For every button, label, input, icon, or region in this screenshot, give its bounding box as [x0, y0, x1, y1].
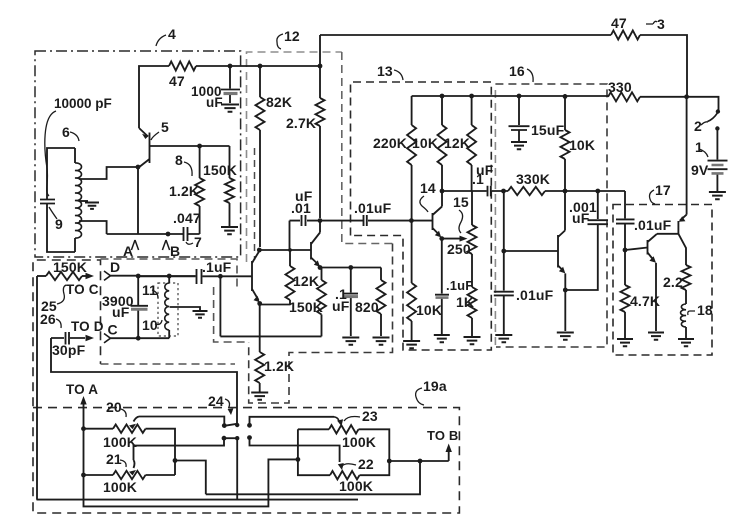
wire pot23 wiper feed [334, 417, 343, 426]
label TO C [66, 282, 99, 297]
svg-text:10K: 10K [412, 135, 438, 151]
svg-text:150K: 150K [53, 259, 87, 275]
ground below 10K lower [403, 341, 420, 348]
junction dot .1uF node [218, 274, 223, 279]
resistor 330K [508, 187, 545, 195]
dashed enclosure box 16 left edge [494, 86, 496, 345]
svg-text:22: 22 [358, 456, 374, 472]
svg-text:100K: 100K [339, 478, 373, 494]
junction dot base/1.2K [197, 144, 202, 149]
label 6 with leader [62, 124, 79, 141]
label TO D [71, 319, 104, 334]
wire feedback jog line [175, 461, 420, 495]
svg-text:C: C [108, 322, 118, 338]
dashed enclosure box 17 [613, 205, 712, 356]
label 220K [373, 135, 407, 151]
svg-text:10000 pF: 10000 pF [54, 96, 112, 111]
capacitor .047 (item 7) [184, 227, 188, 241]
label .1uF (box12 input) [202, 259, 232, 275]
capacitor 1000uF [221, 66, 240, 103]
svg-text:47: 47 [169, 73, 185, 89]
label 2 with leader [694, 118, 708, 134]
junction dot pots right node [387, 459, 392, 464]
svg-text:uF: uF [112, 304, 130, 320]
wire cap to base of Q7 [289, 221, 291, 250]
label 100K pot23 [342, 434, 376, 450]
potentiometer 21 wiper [129, 438, 224, 475]
dashed enclosure box 4 (oscillator) [35, 51, 241, 257]
dashed enclosure box 13 [351, 82, 492, 350]
label 10 with leader [142, 317, 162, 333]
label 14 with leader [420, 180, 436, 212]
dashed enclosure box for tuned network (D/C box) [101, 259, 249, 364]
capacitor .001 uF [565, 191, 608, 290]
label 11 with leader [142, 282, 158, 298]
resistor 2.7K [316, 35, 325, 218]
resistor 12K (box13) [467, 96, 476, 191]
label 15uF [531, 122, 565, 138]
label 30pF [52, 342, 86, 358]
ground below 1.2K [251, 393, 268, 400]
resistor 82K [256, 66, 265, 247]
wire 12K bottom to left rail drop [260, 305, 290, 337]
svg-text:330K: 330K [516, 171, 550, 187]
potentiometer 20 rail [84, 425, 176, 476]
transistor Q5 [138, 128, 150, 234]
svg-text:11: 11 [142, 282, 157, 298]
svg-text:14: 14 [420, 180, 436, 196]
wire box4 bottom rail [107, 233, 200, 235]
dashed enclosure box 12 (amplifier) outer gray outline [247, 52, 342, 262]
ground below .1uF bypass [342, 338, 359, 345]
wire coil bottom tap [79, 221, 107, 234]
capacitor 15uF [509, 96, 530, 141]
svg-text:B: B [170, 243, 180, 259]
rheostat 250 wiper arrow [460, 236, 468, 242]
label 17 with leader [650, 182, 671, 204]
label .1 uF bypass [332, 286, 350, 314]
label .047 [173, 210, 201, 226]
wire coil center tap to ground [79, 200, 88, 202]
dashed enclosure box 12 right edge [342, 52, 393, 244]
label 250 [447, 241, 471, 257]
label 20 with leader [106, 399, 126, 417]
junction dot emitter .001 node [563, 288, 568, 293]
svg-text:2.2: 2.2 [663, 274, 683, 290]
wire Q14 emitter to rheostat wiper [441, 238, 461, 240]
label 2.7K [286, 115, 316, 131]
arrow TO A [80, 396, 86, 429]
svg-text:330: 330 [608, 79, 632, 95]
junction dots box16 rail [517, 94, 568, 99]
label 820 [355, 299, 379, 315]
wire input node to Q14 base [411, 220, 432, 222]
label 15 with leader [453, 194, 469, 233]
wire 30pF left drop to switch feed [51, 338, 237, 424]
svg-text:1K: 1K [456, 294, 474, 310]
label 12K (box13) [444, 135, 470, 151]
label 10K (box13 lower) [416, 302, 442, 318]
svg-text:24: 24 [208, 393, 224, 409]
ground at coil center tap [85, 203, 99, 209]
label 4.7K [630, 293, 660, 309]
wire Q6 base line .1uF [203, 275, 253, 277]
node B arrow [162, 240, 180, 259]
rheostat 250 [468, 191, 477, 287]
svg-text:.01uF: .01uF [354, 200, 392, 216]
label uF .01 stacked [291, 188, 313, 216]
svg-text:12: 12 [284, 28, 300, 44]
junction dot collector node [440, 189, 445, 194]
junction dot 330K left node [501, 189, 506, 194]
ground below .01uF box16 [495, 335, 512, 342]
resistor 330 [608, 92, 687, 101]
svg-text:150K: 150K [203, 162, 237, 178]
junction dot Q6 collector node [257, 248, 262, 253]
resistor 4.7K [621, 250, 630, 338]
svg-text:uF: uF [332, 298, 350, 314]
wire pot22 wiper feed [338, 463, 344, 470]
capacitor .01uF (box17) [616, 219, 635, 250]
resistor 820 [377, 268, 386, 337]
capacitor .1uF (box13 bypass) [435, 239, 449, 334]
svg-text:820: 820 [355, 299, 379, 315]
svg-text:18: 18 [697, 302, 713, 318]
svg-text:8: 8 [175, 152, 183, 168]
label 150K (connector) [53, 259, 87, 275]
label 3900 uF [102, 293, 134, 320]
dashed enclosure box 12 lower-right outline [249, 244, 393, 404]
junction dots box13 rail [440, 94, 474, 99]
node A arrow [123, 240, 139, 259]
junction dot jog start [173, 458, 178, 463]
label 24 with leader [208, 393, 233, 415]
inductor 10/11 [165, 276, 169, 338]
svg-text:3: 3 [657, 16, 665, 32]
label 1K [456, 294, 474, 310]
svg-text:12K: 12K [444, 135, 470, 151]
svg-text:13: 13 [377, 63, 393, 79]
label 2.2 [663, 274, 683, 290]
label TO B [427, 428, 458, 443]
arrow TO B [446, 444, 452, 453]
arrow TO D [86, 335, 95, 341]
potentiometer 22 rail [298, 429, 389, 479]
label .1uF (box13 bypass) [446, 278, 473, 293]
label 26 with leader [40, 311, 61, 328]
label 23 with leader [344, 408, 378, 424]
svg-text:TO A: TO A [66, 382, 98, 397]
label 1000 uF [191, 84, 223, 110]
ground below 150K [221, 227, 238, 234]
svg-text:.01: .01 [291, 200, 311, 216]
ground below Q17b emitter [648, 333, 664, 340]
label uF .1 stacked (coupling) [472, 162, 494, 187]
capacitor .1 uF bypass [344, 268, 358, 337]
label 10K (box13 upper) [412, 135, 438, 151]
wire battery branch [687, 97, 719, 110]
node C chevron [104, 322, 118, 343]
svg-text:.1uF: .1uF [202, 259, 232, 275]
label 25 with leader [41, 285, 66, 314]
svg-text:.1uF: .1uF [446, 278, 473, 293]
svg-text:220K: 220K [373, 135, 407, 151]
label 18 with leader [688, 302, 713, 318]
wire base node to Q17b [625, 248, 648, 251]
svg-text:20: 20 [106, 399, 122, 415]
label 21 with leader [106, 451, 126, 467]
wire main supply column [686, 97, 688, 215]
resistor 47 (box 4) [169, 62, 196, 71]
wire collector node line y191 [442, 190, 487, 192]
wire box12 bottom rail [220, 335, 321, 337]
resistor 220K [407, 96, 416, 221]
ground below battery [709, 192, 726, 199]
label 330 [608, 79, 632, 95]
transistor Q14 [433, 191, 443, 237]
svg-text:1.2K: 1.2K [169, 183, 199, 199]
ground below 820 [373, 338, 390, 345]
ground below 15uF [511, 142, 527, 149]
svg-text:15uF: 15uF [531, 122, 565, 138]
svg-text:47: 47 [611, 15, 627, 31]
svg-text:23: 23 [362, 408, 378, 424]
ground at coil tap [193, 311, 208, 318]
junction dot input node [409, 218, 414, 223]
junction dot C line [136, 336, 141, 341]
svg-text:.047: .047 [173, 210, 201, 226]
svg-text:TO B: TO B [427, 428, 458, 443]
svg-text:D: D [110, 259, 120, 275]
resistor 150K to C [37, 272, 82, 280]
label 82K [266, 94, 292, 110]
junction dots on rail y66 [228, 64, 323, 69]
svg-text:100K: 100K [342, 434, 376, 450]
svg-text:100K: 100K [103, 479, 137, 495]
dotted sub-box around coil 10/11 [158, 283, 178, 336]
wire TO A column [84, 429, 298, 507]
junction dot 10K bottom node [563, 189, 568, 194]
svg-text:10K: 10K [416, 302, 442, 318]
wire base feed down [503, 191, 505, 251]
inductor 18 [681, 304, 686, 338]
junction dot .001 node [595, 189, 600, 194]
wire box13 supply rail [412, 95, 608, 97]
resistor 150K (box 4) [225, 146, 234, 226]
svg-text:15: 15 [453, 194, 469, 210]
potentiometer 23 rail [298, 425, 389, 461]
battery 9V (item 1) [708, 161, 728, 191]
transistor Q16 [504, 191, 566, 331]
resistor 1K [468, 287, 477, 336]
label 150K (box 4) [203, 162, 237, 178]
transistor Q17b [648, 234, 658, 331]
junction dot base node [501, 249, 506, 254]
label 5 with leader [151, 119, 169, 140]
dashed enclosure box 16 [495, 84, 607, 347]
svg-text:2: 2 [694, 118, 702, 134]
wire box4 supply rail y66 [196, 65, 320, 67]
label 12K [293, 273, 319, 289]
resistor 1.2K (box 4) [195, 146, 204, 234]
wire 150K left drop [37, 276, 359, 500]
potentiometer 20 wiper [129, 417, 224, 430]
resistor 1.2K (box12) [255, 336, 264, 391]
svg-text:.01uF: .01uF [634, 217, 672, 233]
node D chevron [104, 259, 120, 280]
label 1.2K (box12) [264, 358, 294, 374]
label 8 with leader [175, 152, 192, 176]
label 4 with leader [156, 26, 176, 46]
capacitor .1 uF coupling (box13 to 16) [488, 186, 504, 197]
wire emitter node line [320, 267, 381, 269]
resistor 10K (box13 lower) [407, 221, 416, 340]
switch 2 (power switch) [708, 109, 721, 130]
wire Q7 base line [259, 249, 311, 251]
label 7 with leader [186, 234, 202, 250]
label .001 uF [569, 199, 597, 226]
capacitor .01uF (box16) [494, 251, 514, 334]
svg-text:7: 7 [194, 234, 202, 250]
wire 47 to transistor 5 collector [139, 66, 169, 128]
junction dot node B [166, 232, 171, 237]
svg-text:250: 250 [447, 241, 471, 257]
label 19a with leader [416, 378, 447, 405]
svg-text:uF: uF [206, 95, 223, 110]
resistor 12K [286, 250, 295, 305]
switch 24 right contacts [247, 417, 340, 462]
junction dot TO B node [418, 459, 423, 464]
svg-text:150K: 150K [289, 299, 323, 315]
capacitor 30pF [51, 332, 85, 345]
label 22 with leader [342, 456, 374, 472]
transistor Q17a [657, 215, 687, 265]
label 3 with leader [646, 16, 665, 32]
svg-text:82K: 82K [266, 94, 292, 110]
wire node line y191 through box16 [504, 190, 626, 192]
label 1.2K (box 4) [169, 183, 199, 199]
wire D line [111, 275, 196, 277]
wire top supply rail [320, 35, 687, 97]
svg-text:6: 6 [62, 124, 70, 140]
resistor 47 (item 3) top right [611, 31, 640, 40]
svg-text:5: 5 [161, 119, 169, 135]
transistor Q7 [311, 221, 320, 267]
label 150K (box12) [289, 299, 323, 315]
svg-text:.01uF: .01uF [516, 287, 554, 303]
svg-text:A: A [123, 243, 133, 259]
label 1 with leader [695, 139, 708, 157]
svg-text:17: 17 [655, 182, 671, 198]
ground below Q16 emitter [557, 333, 574, 340]
wire .1uF node down to rail [219, 276, 221, 336]
junction dot box17 base node [623, 248, 628, 253]
capacitor .1uF (box12 input) [138, 269, 201, 284]
wire C line [111, 337, 170, 339]
capacitor .01uF (box13 input) [362, 215, 411, 226]
junction dot supply column [684, 94, 689, 99]
svg-text:4.7K: 4.7K [630, 293, 660, 309]
svg-text:10K: 10K [569, 137, 595, 153]
junction dots TO A column [81, 426, 86, 477]
svg-text:2.7K: 2.7K [286, 115, 316, 131]
junction dot emitter/coil tap [136, 165, 141, 170]
label 100K pot20 [103, 434, 137, 450]
capacitor 3900 uF [131, 276, 149, 338]
junction dots D line [136, 274, 172, 279]
svg-text:9V: 9V [691, 162, 709, 178]
transistor Q6 [252, 251, 260, 302]
svg-text:TO C: TO C [66, 282, 99, 297]
resistor 10K (box16) [561, 96, 570, 191]
svg-text:TO D: TO D [71, 319, 104, 334]
label TO A [66, 382, 98, 397]
label .01uF (box13 input) [354, 200, 392, 216]
junction dot left rail mid [296, 457, 301, 462]
svg-text:21: 21 [106, 451, 122, 467]
svg-text:26: 26 [40, 311, 56, 327]
svg-text:12K: 12K [293, 273, 319, 289]
label .01uF (box16) [516, 287, 554, 303]
wire .001 node into box17 cap [624, 191, 626, 218]
junction dot node 2.7K/collector [318, 218, 323, 223]
svg-text:30pF: 30pF [52, 342, 86, 358]
dashed enclosure box 12 inner left edge [254, 148, 256, 260]
label 9V [691, 162, 709, 178]
ground below .1uF box13 [434, 335, 450, 342]
wire coil tap to ground [170, 307, 200, 310]
label 10000 pF with leader [45, 96, 112, 196]
label .01uF (box17) [634, 217, 672, 233]
switch 24 pole 2 [222, 436, 240, 500]
wire Q5 base line [150, 145, 230, 147]
resistor 10K (box13 upper) [438, 96, 447, 191]
label 100K pot22 [339, 478, 373, 494]
label 9 with leader [49, 207, 63, 232]
svg-text:100K: 100K [103, 434, 137, 450]
label 47 (box 4) [169, 73, 185, 89]
potentiometer 21 rail [84, 471, 176, 479]
label 13 with leader [377, 63, 403, 80]
ground below inductor 18 [678, 339, 694, 346]
junction dot Q6 emitter node [257, 301, 262, 306]
transformer coil 6 [75, 148, 82, 252]
wire TO B node [389, 451, 448, 461]
svg-text:.1: .1 [472, 171, 484, 187]
arrow TO C [82, 273, 94, 279]
label 10K (box16) [569, 137, 595, 153]
ground below 4.7K [617, 339, 633, 346]
junction dot Q7 emitter [318, 265, 323, 270]
wire switch to battery [716, 129, 718, 160]
resistor 150K (box12) [317, 268, 326, 337]
label 100K pot21 [103, 479, 137, 495]
svg-text:16: 16 [509, 63, 525, 79]
capacitor .01 uF (interstage) [290, 215, 363, 226]
svg-text:19a: 19a [423, 378, 447, 394]
svg-text:1.2K: 1.2K [264, 358, 294, 374]
svg-text:4: 4 [168, 26, 176, 42]
tank circuit loop with capacitor 9 [40, 148, 75, 252]
switch 24 pole 1 [222, 423, 239, 428]
label 47 for resistor 3 [611, 15, 627, 31]
label 330K [516, 171, 550, 187]
svg-text:10: 10 [142, 317, 158, 333]
ground below 1000uF [221, 105, 239, 112]
junction dot emitter bypass [439, 236, 444, 241]
ground below 1K [464, 337, 481, 344]
svg-text:1: 1 [695, 139, 703, 155]
